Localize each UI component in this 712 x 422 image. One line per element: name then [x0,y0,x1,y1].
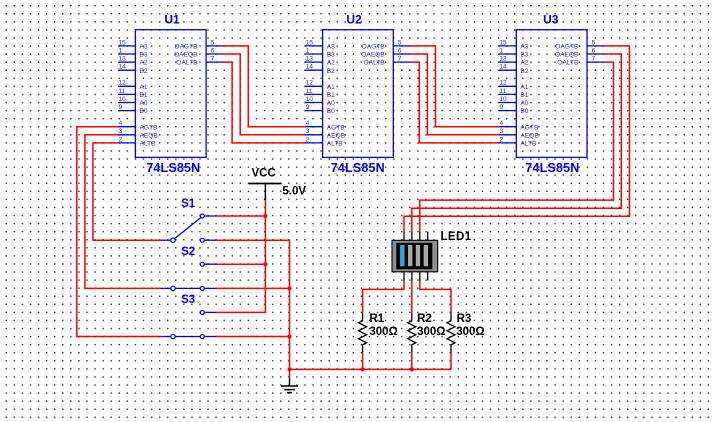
svg-text:AEQB: AEQB [327,132,346,139]
svg-text:A0: A0 [327,100,335,107]
svg-text:4: 4 [119,120,123,127]
svg-text:A2: A2 [140,60,148,67]
svg-text:A3: A3 [520,44,528,51]
svg-text:7: 7 [592,56,596,63]
svg-text:2: 2 [500,136,504,143]
svg-text:A0: A0 [520,100,528,107]
svg-text:3: 3 [306,128,310,135]
svg-text:12: 12 [119,80,127,87]
svg-text:9: 9 [500,104,504,111]
svg-text:U1: U1 [164,13,180,27]
svg-text:LED1: LED1 [441,231,472,243]
svg-text:5: 5 [211,39,215,46]
svg-text:74LS85N: 74LS85N [146,161,200,175]
svg-text:A1: A1 [520,84,528,91]
svg-text:A3: A3 [140,44,148,51]
svg-text:S2: S2 [181,246,195,258]
svg-text:A2: A2 [520,60,528,67]
svg-text:6: 6 [592,47,596,54]
svg-text:10: 10 [306,96,314,103]
svg-text:9: 9 [306,104,310,111]
svg-text:2: 2 [119,136,123,143]
svg-text:ALTB: ALTB [520,141,537,148]
svg-text:9: 9 [119,104,123,111]
svg-text:A: A [392,242,397,249]
svg-text:B2: B2 [327,68,335,75]
svg-text:AGTB: AGTB [520,124,539,131]
svg-text:10: 10 [500,96,508,103]
svg-text:6: 6 [211,47,215,54]
svg-text:B1: B1 [520,92,528,99]
svg-text:AEQB: AEQB [140,132,159,139]
svg-text:13: 13 [500,56,508,63]
svg-text:U3: U3 [543,13,559,27]
svg-text:5.0V: 5.0V [282,186,306,198]
svg-text:U2: U2 [346,13,362,27]
svg-text:VCC: VCC [252,168,276,180]
svg-text:OAGTB: OAGTB [174,44,198,51]
svg-text:B0: B0 [327,108,335,115]
svg-text:1: 1 [119,47,123,54]
svg-text:300Ω: 300Ω [456,326,484,338]
svg-text:ALTB: ALTB [140,141,157,148]
svg-text:S3: S3 [181,294,195,306]
svg-text:15: 15 [306,39,314,46]
svg-text:3: 3 [119,128,123,135]
svg-text:B0: B0 [140,108,148,115]
svg-text:B0: B0 [520,108,528,115]
svg-text:2: 2 [306,136,310,143]
svg-text:15: 15 [119,39,127,46]
svg-text:OAGTB: OAGTB [555,44,579,51]
svg-text:7: 7 [211,56,215,63]
svg-text:B1: B1 [327,92,335,99]
svg-text:15: 15 [500,39,508,46]
svg-text:OALTB: OALTB [176,60,198,67]
svg-text:11: 11 [119,88,126,95]
svg-text:B3: B3 [520,52,528,59]
svg-text:OALTB: OALTB [557,60,579,67]
svg-text:7: 7 [398,56,402,63]
svg-text:AEQB: AEQB [520,132,539,139]
svg-text:5: 5 [398,39,402,46]
svg-text:OAEQB: OAEQB [361,52,385,59]
svg-text:A2: A2 [327,60,335,67]
svg-text:B1: B1 [140,92,148,99]
svg-text:1: 1 [306,47,310,54]
svg-text:74LS85N: 74LS85N [525,161,579,175]
svg-text:10: 10 [119,96,127,103]
svg-text:3: 3 [500,128,504,135]
svg-text:74LS85N: 74LS85N [331,161,385,175]
svg-text:AGTB: AGTB [327,124,346,131]
svg-text:OAGTB: OAGTB [362,44,386,51]
svg-text:A1: A1 [140,84,148,91]
svg-text:13: 13 [119,56,127,63]
svg-text:B3: B3 [327,52,335,59]
svg-text:14: 14 [500,64,508,71]
svg-text:4: 4 [500,120,504,127]
svg-text:OAEQB: OAEQB [174,52,198,59]
svg-text:R1: R1 [369,313,384,325]
svg-text:B2: B2 [140,68,148,75]
svg-text:A1: A1 [327,84,335,91]
svg-text:14: 14 [306,64,314,71]
svg-text:13: 13 [306,56,314,63]
svg-text:12: 12 [306,80,314,87]
svg-text:B2: B2 [520,68,528,75]
svg-text:OALTB: OALTB [364,60,386,67]
svg-text:300Ω: 300Ω [417,326,445,338]
svg-text:S1: S1 [181,198,196,210]
svg-text:14: 14 [119,64,127,71]
svg-text:R2: R2 [417,313,432,325]
svg-text:6: 6 [398,47,402,54]
svg-text:A3: A3 [327,44,335,51]
svg-text:11: 11 [500,88,507,95]
svg-text:AGTB: AGTB [140,124,159,131]
svg-text:A0: A0 [140,100,148,107]
svg-text:1: 1 [500,47,504,54]
svg-text:ALTB: ALTB [327,141,344,148]
svg-text:OAEQB: OAEQB [555,52,579,59]
svg-text:B3: B3 [140,52,148,59]
svg-text:12: 12 [500,80,508,87]
svg-text:4: 4 [306,120,310,127]
svg-text:5: 5 [592,39,596,46]
svg-text:R3: R3 [457,313,472,325]
svg-text:300Ω: 300Ω [369,326,397,338]
svg-text:11: 11 [306,88,313,95]
